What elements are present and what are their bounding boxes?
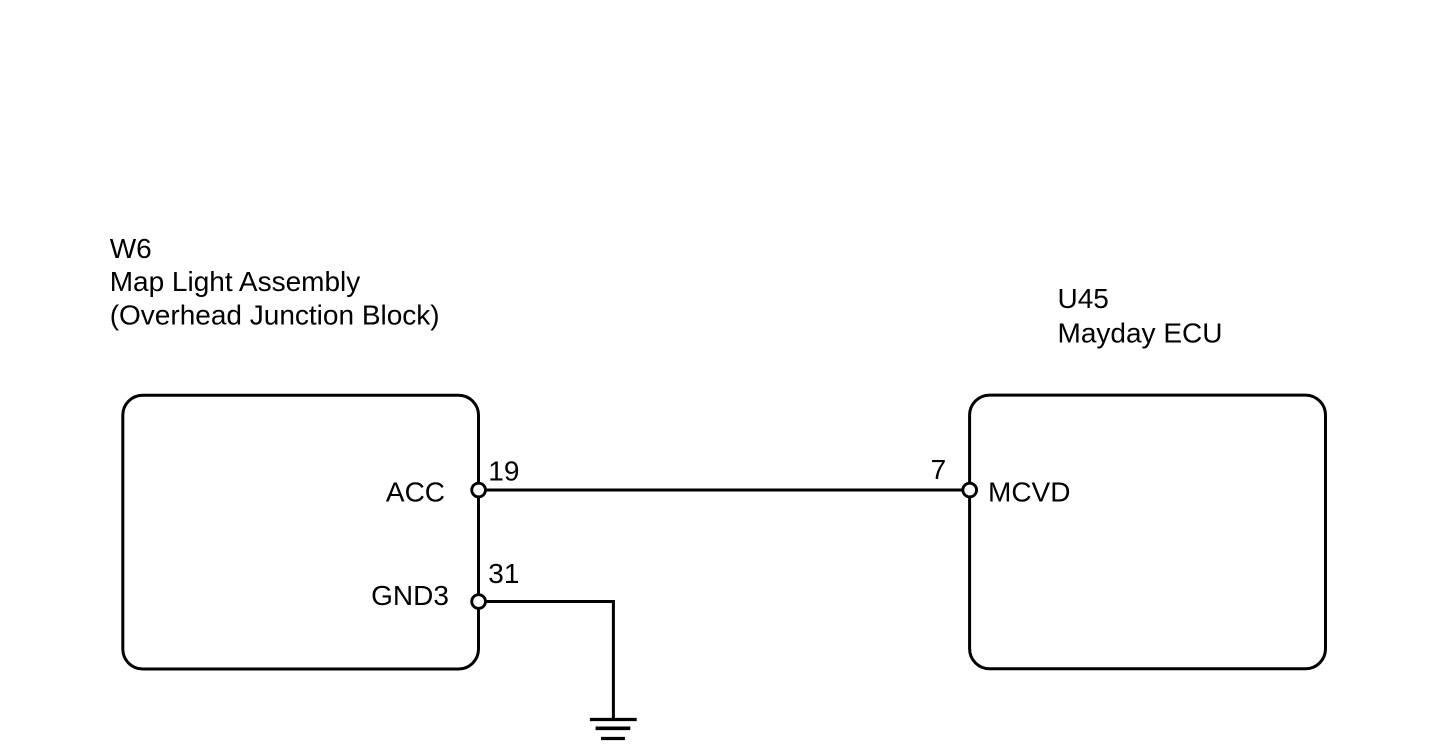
svg-text:MCVD: MCVD xyxy=(988,477,1070,508)
svg-text:U45: U45 xyxy=(1058,283,1109,314)
svg-text:Map Light Assembly: Map Light Assembly xyxy=(110,266,361,297)
pin terminal 31 xyxy=(472,595,486,609)
component W6 Map Light Assembly block outline xyxy=(123,395,479,669)
wire ACC pin 19 to MCVD pin 7 xyxy=(479,489,970,492)
svg-text:Mayday ECU: Mayday ECU xyxy=(1058,318,1223,349)
svg-text:31: 31 xyxy=(488,558,519,589)
pin terminal 7 xyxy=(963,483,977,497)
pin terminal 19 xyxy=(472,483,486,497)
wire GND3 pin 31 to ground xyxy=(479,602,614,720)
svg-text:(Overhead Junction Block): (Overhead Junction Block) xyxy=(110,299,440,330)
ground xyxy=(590,720,637,739)
svg-text:19: 19 xyxy=(488,455,519,486)
component U45 Mayday ECU block outline xyxy=(970,395,1326,669)
svg-text:GND3: GND3 xyxy=(371,580,449,611)
svg-text:ACC: ACC xyxy=(386,476,445,507)
svg-text:7: 7 xyxy=(931,454,947,485)
svg-text:W6: W6 xyxy=(110,233,152,264)
